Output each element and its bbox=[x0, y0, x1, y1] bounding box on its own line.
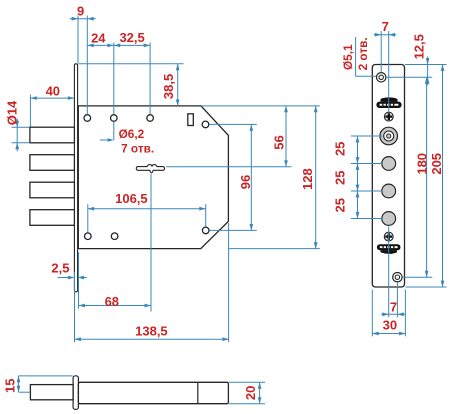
svg-text:7 отв.: 7 отв. bbox=[121, 141, 154, 155]
extension line bolt axis (for dim 15) bbox=[19, 391, 30, 393]
dimension 106,5 bbox=[88, 207, 206, 211]
extension line faceplate top (for dim 38,5) bbox=[79, 63, 184, 65]
extension line faceplate top (for dim 15) bbox=[19, 375, 73, 377]
svg-text:38,5: 38,5 bbox=[161, 74, 176, 99]
hole Ø6.2 #2 bbox=[111, 115, 118, 122]
svg-text:24: 24 bbox=[91, 30, 106, 45]
screw hole Ø5,1 top (counterbored) bbox=[377, 73, 386, 82]
svg-text:2,5: 2,5 bbox=[51, 260, 69, 275]
label 68 bbox=[105, 294, 119, 309]
extension lines bolt 1 top/bottom (for Ø14) bbox=[12, 127, 30, 143]
extension line bottom small hole (for 180) bbox=[402, 276, 432, 278]
extension line hole col 3 bbox=[149, 43, 151, 115]
dimension 25 chain bbox=[356, 136, 360, 219]
label Ø6,2 bbox=[119, 127, 145, 141]
label 138,5 bbox=[135, 324, 168, 339]
bolt hole 2 (front view) bbox=[382, 157, 396, 171]
deadbolt 4 bbox=[30, 210, 75, 226]
label 106,5 bbox=[115, 191, 148, 206]
dimension 15 bbox=[17, 376, 21, 392]
dimension 205 bbox=[441, 65, 445, 288]
screw head bottom (phillips) bbox=[384, 232, 393, 241]
label 180 bbox=[414, 153, 429, 175]
extension line faceplate left (for 2,5 and 138,5) bbox=[74, 272, 76, 342]
label 205 bbox=[429, 153, 444, 175]
deadbolt 1 bbox=[30, 127, 75, 143]
extension line plate centerline (bottom) bbox=[388, 227, 390, 318]
svg-text:15: 15 bbox=[3, 378, 18, 392]
svg-text:25: 25 bbox=[333, 198, 348, 212]
label 9 bbox=[77, 4, 84, 19]
svg-text:40: 40 bbox=[46, 84, 60, 99]
logo stamp bottom bbox=[377, 244, 401, 254]
dimension 38,5 bbox=[176, 64, 180, 106]
dimension 7 top bbox=[374, 33, 397, 37]
label Ø14 bbox=[4, 100, 19, 125]
label 7 otv bbox=[121, 141, 154, 155]
label 32,5 bbox=[119, 30, 144, 45]
svg-text:20: 20 bbox=[243, 386, 258, 400]
bolt hole 3 (front view) bbox=[382, 184, 396, 198]
label 38,5 bbox=[161, 74, 176, 99]
label 20 bbox=[243, 386, 258, 400]
keyhole (key cross-section profile) bbox=[136, 165, 164, 173]
dimension 56 bbox=[284, 106, 288, 167]
svg-text:25: 25 bbox=[333, 170, 348, 184]
leader hole 2 (for Ø6,2) bbox=[100, 122, 114, 142]
hole Ø6.2 #5 (bottom left) bbox=[85, 233, 92, 240]
dimension 96 bbox=[250, 124, 254, 230]
svg-text:205: 205 bbox=[429, 153, 444, 175]
extension line case right corner (for 138,5) bbox=[228, 223, 230, 342]
label 128 bbox=[300, 168, 315, 190]
screw head top (phillips) bbox=[384, 112, 393, 121]
label 56 bbox=[271, 135, 286, 149]
label Ø5,1 bbox=[341, 44, 355, 70]
extension line hole col 1 bbox=[86, 16, 88, 115]
extension line case left edge (for dim 9) bbox=[77, 16, 79, 64]
label 25 a bbox=[333, 142, 348, 156]
svg-text:2 отв.: 2 отв. bbox=[356, 37, 370, 70]
extension lines front holes (for 25 chain) bbox=[351, 136, 383, 219]
faceplate (bottom view, edge-on) bbox=[73, 376, 78, 410]
extension line plate centerline (top) bbox=[388, 31, 390, 112]
svg-text:30: 30 bbox=[383, 318, 397, 333]
dimension 128 bbox=[314, 106, 318, 249]
hole Ø6.2 #1 bbox=[84, 115, 91, 122]
hole Ø6.2 #4 (top right) bbox=[202, 121, 209, 128]
svg-text:68: 68 bbox=[105, 294, 119, 309]
label 25 c bbox=[333, 198, 348, 212]
faceplate (edge view, main view) bbox=[74, 64, 77, 292]
dimension 2,5 bbox=[58, 276, 87, 280]
extension lines case right end (for dim 20) bbox=[229, 382, 265, 403]
leader Ø5,1 bbox=[356, 37, 377, 76]
extension line hole 4 (for dim 96) bbox=[209, 123, 256, 125]
extension line hole 5 (for 106,5) bbox=[87, 204, 89, 232]
svg-text:56: 56 bbox=[271, 135, 286, 149]
svg-text:138,5: 138,5 bbox=[135, 324, 168, 339]
svg-text:Ø5,1: Ø5,1 bbox=[341, 44, 355, 70]
svg-text:9: 9 bbox=[77, 4, 84, 19]
label 96 bbox=[238, 175, 253, 189]
faceplate front view plate bbox=[372, 65, 404, 288]
extension line hole 7 (for dim 96) bbox=[210, 229, 257, 231]
extension line plate bottom (for 205) bbox=[406, 286, 447, 288]
extension line case bottom edge (for dim 128) bbox=[228, 248, 319, 250]
extension line keyhole axis (for dim 56) bbox=[166, 166, 292, 168]
label 24 bbox=[91, 30, 106, 45]
dimension 32,5 bbox=[114, 44, 150, 48]
label 15 bbox=[3, 378, 18, 392]
dimension 68 bbox=[79, 304, 151, 308]
deadbolt 2 bbox=[30, 155, 75, 171]
svg-text:12,5: 12,5 bbox=[411, 34, 426, 59]
extension lines plate bottom corners (for 30) bbox=[372, 290, 405, 337]
cross keyhole (ringed hole) bbox=[380, 127, 398, 145]
svg-text:Ø6,2: Ø6,2 bbox=[119, 127, 145, 141]
svg-text:25: 25 bbox=[333, 142, 348, 156]
case separator line (bottom view) bbox=[197, 383, 199, 403]
dimension 180 bbox=[425, 77, 429, 277]
deadbolt 3 bbox=[30, 182, 75, 198]
case (bottom view bar) bbox=[78, 382, 228, 403]
dimension 138,5 bbox=[75, 337, 229, 341]
extension line bolt tip (for dim 40) bbox=[29, 95, 31, 127]
svg-text:7: 7 bbox=[382, 19, 389, 34]
dimension 24 bbox=[87, 44, 114, 48]
svg-text:Ø14: Ø14 bbox=[4, 100, 19, 125]
dimension 12,5 bbox=[426, 57, 430, 86]
extension line case left (for dim 68) bbox=[78, 252, 80, 309]
hole Ø6.2 #3 bbox=[147, 115, 154, 122]
extension line hole col 2 bbox=[113, 43, 115, 115]
dimension 7 bottom bbox=[381, 312, 405, 316]
extension line small hole (right, for 12,5 and 180) bbox=[386, 76, 432, 78]
label 40 bbox=[46, 84, 60, 99]
label 7 bottom bbox=[390, 299, 397, 314]
svg-text:128: 128 bbox=[300, 168, 315, 190]
screw hole Ø5,1 bottom (counterbored) bbox=[393, 273, 402, 282]
dimension 30 bbox=[372, 332, 405, 336]
deadbolt (bottom view) bbox=[30, 385, 73, 400]
svg-text:180: 180 bbox=[414, 153, 429, 175]
label 12,5 bbox=[411, 34, 426, 59]
hole Ø6.2 #7 (bottom right) bbox=[202, 227, 209, 234]
label 7 top bbox=[382, 19, 389, 34]
lock case body outline bbox=[78, 106, 228, 249]
extension line bottom small hole axis bbox=[396, 282, 398, 317]
hole Ø6.2 #6 bbox=[111, 233, 118, 240]
dimension 9 bbox=[70, 17, 96, 21]
svg-text:96: 96 bbox=[238, 175, 253, 189]
label 30 bbox=[383, 318, 397, 333]
slot (rectangular cutout) bbox=[188, 114, 194, 126]
extension line plate top edge bbox=[405, 64, 447, 66]
extension line case top edge extended bbox=[201, 105, 320, 107]
logo stamp top bbox=[376, 97, 401, 108]
bolt hole 4 (front view) bbox=[382, 212, 396, 226]
label 2 otv bbox=[356, 37, 370, 70]
dimension Ø14 bbox=[15, 119, 19, 152]
dimension 40 bbox=[30, 96, 74, 100]
svg-text:32,5: 32,5 bbox=[119, 30, 144, 45]
svg-text:106,5: 106,5 bbox=[115, 191, 148, 206]
svg-text:7: 7 bbox=[390, 299, 397, 314]
extension line small hole axis (for dim 7 top) bbox=[380, 31, 382, 72]
dimension 20 bbox=[258, 382, 262, 403]
label 2,5 bbox=[51, 260, 69, 275]
label 25 b bbox=[333, 170, 348, 184]
centerline keyhole (ext for dim 68) bbox=[150, 174, 152, 312]
extension line hole 7 (for 106,5) bbox=[205, 204, 207, 227]
